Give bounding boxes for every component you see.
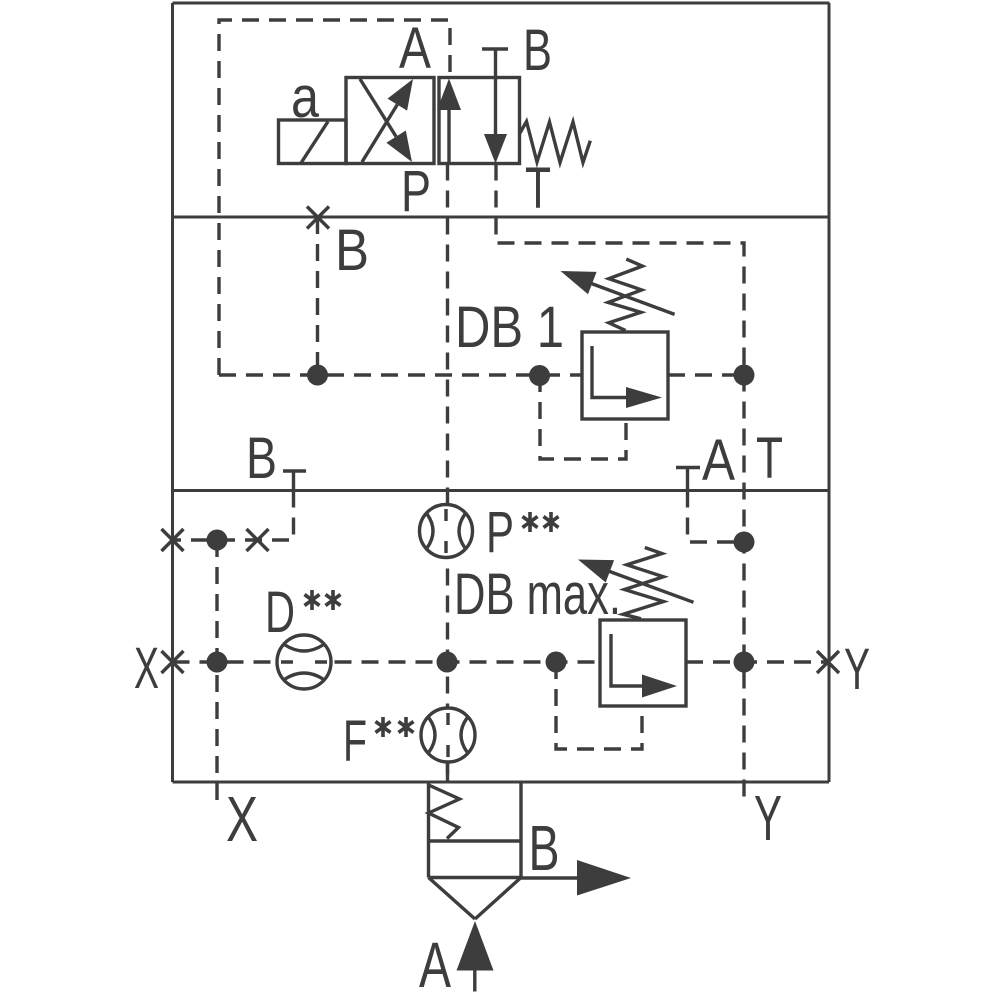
svg-text:Y: Y [754, 782, 782, 854]
svg-text:D: D [265, 580, 295, 645]
svg-text:A: A [419, 929, 451, 1000]
svg-text:DB 1: DB 1 [455, 295, 564, 360]
svg-text:X: X [226, 783, 258, 855]
svg-text:P: P [401, 159, 431, 224]
svg-text:A: A [399, 16, 431, 81]
svg-text:T: T [756, 426, 783, 491]
svg-text:B: B [523, 18, 552, 83]
svg-text:B: B [529, 812, 560, 884]
svg-text:B: B [335, 218, 369, 283]
svg-text:F: F [343, 709, 367, 774]
svg-text:P: P [486, 500, 514, 565]
svg-text:B: B [246, 426, 277, 491]
svg-text:a: a [291, 65, 320, 130]
svg-text:DB max.: DB max. [454, 562, 621, 627]
svg-text:X: X [134, 636, 159, 701]
svg-text:A: A [702, 428, 735, 493]
svg-text:Y: Y [844, 637, 870, 702]
svg-text:T: T [525, 156, 551, 221]
